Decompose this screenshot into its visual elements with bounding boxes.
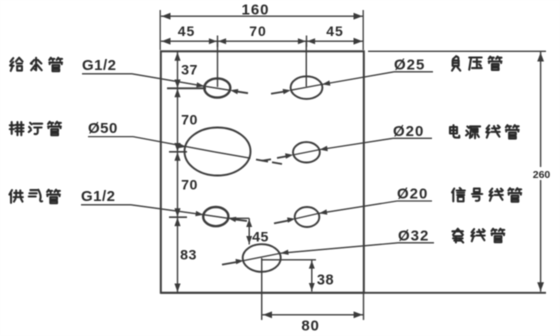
svg-text:70: 70	[181, 178, 198, 194]
svg-text:70: 70	[181, 113, 198, 129]
svg-text:260: 260	[533, 169, 551, 181]
svg-text:Ø32: Ø32	[398, 228, 429, 245]
svg-text:38: 38	[317, 273, 334, 289]
svg-text:83: 83	[180, 248, 197, 264]
svg-text:80: 80	[301, 318, 319, 335]
svg-text:Ø20: Ø20	[393, 123, 424, 140]
svg-text:160: 160	[241, 2, 269, 19]
svg-text:Ø50: Ø50	[88, 120, 118, 137]
svg-text:Ø20: Ø20	[397, 186, 428, 203]
svg-text:G1/2: G1/2	[81, 188, 116, 205]
svg-text:45: 45	[178, 23, 196, 39]
svg-text:45: 45	[252, 230, 269, 246]
svg-text:G1/2: G1/2	[82, 57, 117, 74]
svg-text:70: 70	[249, 23, 267, 39]
svg-text:45: 45	[326, 23, 344, 39]
svg-text:Ø25: Ø25	[394, 57, 425, 74]
svg-text:37: 37	[181, 63, 198, 79]
